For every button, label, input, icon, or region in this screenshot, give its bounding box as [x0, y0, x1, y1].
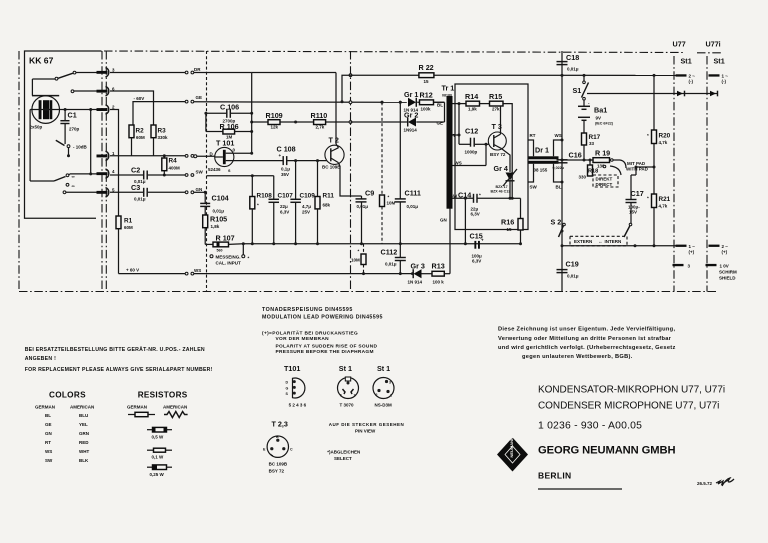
svg-text:DR: DR [194, 67, 201, 72]
svg-text:RT: RT [530, 133, 536, 138]
svg-text:YEL: YEL [79, 422, 88, 427]
capacitor C16 [553, 151, 582, 171]
svg-text:R105: R105 [210, 215, 227, 224]
svg-text:- 10dB: - 10dB [73, 145, 88, 150]
svg-text:BL: BL [437, 103, 443, 108]
svg-text:10M: 10M [351, 258, 360, 263]
legend resistor 0,5W [147, 427, 172, 439]
svg-text:Gr 1: Gr 1 [404, 90, 418, 99]
svg-text:Gr 2: Gr 2 [404, 111, 418, 120]
svg-text:1 ~: 1 ~ [689, 244, 696, 249]
diode Gr3 [408, 262, 425, 285]
logo Neumann diamond [497, 437, 528, 472]
svg-text:1,9k: 1,9k [468, 107, 477, 112]
resistor R22 [419, 63, 434, 84]
capacitor C108 [233, 145, 327, 178]
svg-text:BZX 46 C13: BZX 46 C13 [491, 190, 511, 194]
svg-text:R16: R16 [501, 218, 514, 227]
capacitor C107 [269, 176, 294, 246]
svg-text:400M: 400M [169, 166, 181, 171]
svg-text:- 60V: - 60V [134, 96, 145, 101]
note ABGLEICHEN SELECT [327, 450, 360, 461]
svg-text:C9: C9 [365, 189, 374, 198]
svg-text:60M: 60M [124, 225, 133, 230]
svg-text:0,25 W: 0,25 W [150, 472, 165, 477]
resistor R107 [205, 234, 243, 253]
svg-text:C111: C111 [405, 189, 421, 198]
svg-text:WS: WS [45, 449, 52, 454]
svg-text:Verwertung oder Mitteilung an: Verwertung oder Mitteilung an dritte Per… [498, 336, 672, 342]
capacitor C109 [290, 161, 315, 246]
svg-text:↔: ↔ [598, 239, 603, 244]
svg-text:*: * [358, 249, 360, 254]
svg-text:R110: R110 [311, 111, 328, 120]
svg-text:R 107: R 107 [216, 234, 235, 243]
resistor R17 [582, 133, 601, 160]
svg-text:+: + [279, 153, 282, 158]
svg-text:100k: 100k [421, 107, 432, 112]
svg-text:27k: 27k [492, 107, 500, 112]
svg-text:PRESSURE BEFORE THE DIAPHRAG: PRESSURE BEFORE THE DIAPHRAGM [276, 349, 374, 355]
svg-text:C3: C3 [131, 183, 140, 192]
resistor R109 [252, 111, 314, 130]
svg-text:PIN VIEW: PIN VIEW [355, 428, 376, 433]
svg-text:22μ: 22μ [280, 204, 288, 209]
output module dash-dot boundary [350, 51, 352, 292]
svg-text:R2: R2 [136, 128, 145, 135]
svg-text:1 0236 - 930 - A00.05: 1 0236 - 930 - A00.05 [538, 421, 642, 432]
svg-text:270p: 270p [69, 127, 80, 132]
svg-text:DIREKT: DIREKT [596, 177, 613, 182]
svg-text:BLK: BLK [79, 458, 89, 463]
label MIT PAD WITH PAD [603, 159, 648, 175]
resistor R14 [465, 92, 480, 112]
amplifier module left boundary [105, 51, 107, 292]
svg-text:WS: WS [194, 268, 201, 273]
svg-text:52436: 52436 [208, 167, 221, 172]
resistor R110 [294, 111, 350, 130]
svg-text:St 1: St 1 [339, 364, 352, 373]
svg-text:R 22: R 22 [419, 63, 434, 72]
svg-text:R108: R108 [257, 193, 273, 200]
svg-text:5 2 4 3 6: 5 2 4 3 6 [289, 403, 307, 408]
svg-text:R3: R3 [158, 128, 167, 135]
svg-text:SW: SW [45, 458, 53, 463]
svg-text:GEORG NEUMANN GMBH: GEORG NEUMANN GMBH [538, 445, 675, 457]
zener diode Gr4 [491, 164, 518, 200]
svg-text:G: G [286, 386, 289, 390]
svg-text:08 155: 08 155 [534, 168, 548, 173]
note BEI ERSATZTEILBESTELLUNG [25, 346, 213, 373]
wire +60V rail WS [119, 273, 186, 275]
svg-text:CONDENSER MICROPHONE U77, U7: CONDENSER MICROPHONE U77, U77i [538, 401, 719, 412]
switch S2 [551, 218, 632, 238]
svg-text:COLORS: COLORS [49, 391, 86, 400]
transistor T101 [208, 139, 253, 174]
note Diese Zeichnung [498, 327, 676, 361]
wire output plus rail [562, 245, 676, 247]
capacitor C9 [356, 189, 375, 246]
capacitor C2 [110, 166, 185, 185]
svg-text:St1: St1 [714, 57, 725, 66]
label EXTERN INTERN dashed box [570, 236, 627, 246]
capacitor C14 [450, 191, 521, 217]
wire DR column down [251, 73, 253, 154]
svg-text:*)ABGLEICHEN: *)ABGLEICHEN [327, 450, 360, 455]
note TONADERSPEISUNG [262, 307, 383, 321]
svg-text:1 ~: 1 ~ [722, 74, 729, 79]
capacitor C106 [204, 103, 253, 132]
svg-text:GN: GN [440, 218, 447, 223]
svg-text:BLU: BLU [79, 413, 88, 418]
capacitor C19 [557, 260, 579, 279]
wire DR to T2 collector column [194, 72, 252, 74]
svg-text:3: 3 [389, 381, 391, 385]
capacitor C1 [60, 110, 79, 145]
svg-text:15: 15 [507, 227, 513, 232]
svg-text:BSY 72: BSY 72 [490, 152, 506, 157]
amplifier output stage box [455, 84, 528, 230]
svg-text:*: * [257, 203, 259, 208]
svg-text:C 106: C 106 [220, 103, 239, 112]
pin 2(-) U77 [676, 74, 696, 85]
svg-text:*: * [647, 196, 649, 201]
resistor R105 [203, 215, 227, 245]
svg-text:B: B [276, 435, 279, 439]
resistor R3 [151, 125, 168, 156]
svg-text:2,7k: 2,7k [316, 125, 325, 130]
node DR contacts [185, 71, 188, 74]
svg-text:T 2,3: T 2,3 [272, 420, 288, 429]
svg-text:2 ~: 2 ~ [722, 244, 729, 249]
outer microphone housing frame [19, 51, 721, 292]
note POLARITAET [262, 330, 377, 356]
svg-text:R13: R13 [432, 262, 445, 271]
svg-text:2: 2 [354, 394, 356, 398]
svg-text:R17: R17 [589, 134, 601, 141]
svg-text:S 2: S 2 [551, 218, 562, 227]
svg-text:6,3V: 6,3V [472, 259, 481, 264]
svg-text:1: 1 [340, 394, 342, 398]
svg-text:und wird gerichtlich verfolgt.: und wird gerichtlich verfolgt. (Urheberr… [498, 345, 676, 351]
svg-text:*: * [479, 193, 481, 198]
svg-text:560: 560 [217, 249, 223, 253]
svg-text:WS: WS [555, 133, 562, 138]
svg-text:GE: GE [45, 422, 52, 427]
svg-text:RED: RED [79, 440, 89, 445]
svg-text:+: + [481, 238, 484, 243]
svg-text:1N 914: 1N 914 [408, 280, 423, 285]
inner shield dashed boundary [206, 51, 208, 292]
svg-text:SCHIRM: SCHIRM [719, 270, 737, 275]
svg-text:Ba1: Ba1 [594, 106, 607, 115]
svg-text:R20: R20 [659, 133, 671, 140]
svg-text:GN: GN [45, 431, 52, 436]
svg-text:C16: C16 [569, 151, 582, 160]
capacitor C15 [464, 197, 484, 264]
capacitor C17 [626, 175, 644, 223]
svg-text:25V: 25V [302, 210, 310, 215]
svg-text:MESSEING.: MESSEING. [216, 255, 241, 260]
svg-text:1000p: 1000p [465, 150, 478, 155]
svg-text:R109: R109 [266, 111, 283, 120]
wire T101 source row [207, 175, 274, 177]
svg-text:St1: St1 [681, 57, 692, 66]
svg-text:ANGEBEN !: ANGEBEN ! [25, 356, 56, 362]
svg-text:Gr 4: Gr 4 [494, 164, 508, 173]
svg-text:6,3V: 6,3V [471, 212, 480, 217]
node contacts on output module boundary [349, 74, 352, 77]
svg-text:RESISTORS: RESISTORS [138, 391, 188, 400]
svg-text:INTERN: INTERN [605, 239, 622, 244]
svg-text:C19: C19 [566, 260, 579, 269]
svg-text:MODULATION LEAD POWERING DIN: MODULATION LEAD POWERING DIN45595 [262, 314, 383, 320]
svg-text:VOR DER MEMBRAN: VOR DER MEMBRAN [276, 336, 330, 342]
svg-text:C2: C2 [131, 166, 140, 175]
svg-text:GN: GN [196, 187, 203, 192]
svg-text:15: 15 [424, 79, 430, 84]
resistor R20 [631, 74, 671, 194]
svg-text:SW: SW [530, 185, 538, 190]
svg-text:C109: C109 [300, 193, 316, 200]
svg-text:C107: C107 [278, 193, 294, 200]
svg-text:R 19: R 19 [595, 149, 610, 158]
wire R22 supply row [342, 75, 419, 101]
svg-text:2x50p: 2x50p [30, 125, 43, 130]
-10dB pad switch [56, 140, 88, 157]
svg-text:SHIELD: SHIELD [719, 276, 736, 281]
resistor R108 [250, 176, 272, 246]
svg-text:BERLIN: BERLIN [538, 471, 571, 481]
note AUF DIE STECKER GESEHEN [329, 422, 405, 433]
svg-text:Gr 3: Gr 3 [411, 262, 425, 271]
svg-text:AUF DIE STECKER GESEHEN: AUF DIE STECKER GESEHEN [329, 422, 405, 427]
svg-text:SELECT: SELECT [334, 456, 352, 461]
pin 2(+) U77i [709, 244, 729, 255]
pin 1(+) U77 [676, 244, 696, 255]
svg-text:2 ~: 2 ~ [689, 74, 696, 79]
svg-text:+ 60 V: + 60 V [126, 268, 139, 273]
resistor 10M select (lower) [351, 244, 366, 275]
wire pin6 to R3 [110, 91, 154, 125]
diode Gr2 [351, 111, 445, 133]
battery module main rail [561, 51, 563, 292]
transistor T2 [322, 73, 362, 197]
svg-text:C18: C18 [566, 53, 579, 62]
svg-text:GERMAN: GERMAN [127, 405, 147, 410]
resistor R13 [422, 209, 451, 285]
legend RESISTORS table [127, 391, 188, 418]
svg-text:33: 33 [589, 141, 595, 146]
svg-text:0,01μ: 0,01μ [567, 67, 579, 72]
svg-text:330k: 330k [158, 135, 169, 140]
switch S1 [573, 74, 589, 100]
svg-text:Tr 1: Tr 1 [442, 84, 455, 93]
svg-text:(+): (+) [689, 250, 695, 255]
svg-text:GRN: GRN [79, 431, 89, 436]
svg-text:(-): (-) [722, 79, 727, 84]
connector view T2 T3 [263, 420, 293, 474]
svg-text:6,3V: 6,3V [280, 210, 289, 215]
svg-text:0,01μ: 0,01μ [213, 209, 225, 214]
svg-text:BL: BL [45, 413, 51, 418]
svg-text:EXTERN: EXTERN [574, 239, 592, 244]
svg-text:0,01μ: 0,01μ [567, 274, 579, 279]
resistor R12 [420, 91, 445, 112]
pin 1(-) U77i [709, 74, 729, 85]
svg-text:35V: 35V [281, 172, 289, 177]
svg-text:100 k: 100 k [433, 280, 445, 285]
capacitor C3 [110, 183, 185, 202]
node GE contacts [185, 100, 188, 103]
wire -60V row [133, 102, 185, 125]
KK 67 capsule box [25, 51, 102, 218]
arrow contacts on S1 line [677, 91, 718, 97]
node SW contacts [185, 174, 188, 177]
svg-text:BL: BL [556, 185, 562, 190]
legend COLORS table [35, 391, 94, 464]
pin 1 0V shield U77i [706, 264, 738, 281]
svg-text:GE: GE [196, 95, 203, 100]
svg-text:1,8k: 1,8k [211, 224, 220, 229]
wire GE rail [194, 101, 407, 104]
svg-text:AMERICAN: AMERICAN [163, 405, 187, 410]
pin 3 U77 [673, 264, 691, 269]
svg-text:CAL. INPUT: CAL. INPUT [216, 261, 242, 266]
svg-text:BZX 17: BZX 17 [496, 185, 508, 189]
resistor R106 [206, 122, 253, 140]
date signature [697, 478, 734, 486]
svg-text:2: 2 [376, 393, 378, 397]
svg-text:R21: R21 [659, 196, 671, 203]
svg-text:BC 109B: BC 109B [269, 462, 288, 467]
svg-text:330: 330 [579, 175, 587, 180]
svg-text:gegen unlauteren Wettbewerb, B: gegen unlauteren Wettbewerb, BGB). [522, 354, 633, 360]
connector view T101 [284, 364, 307, 408]
svg-text:R1: R1 [124, 218, 133, 225]
wire 0V rail [243, 243, 520, 245]
wire S1 remote line [587, 93, 718, 95]
battery Ba1 [578, 100, 614, 133]
legend resistor 0,25W [147, 465, 172, 477]
svg-text:SW: SW [196, 170, 204, 175]
svg-text:D: D [286, 381, 289, 385]
svg-text:0,5 W: 0,5 W [152, 435, 165, 440]
connector view St1 T3070 [338, 364, 359, 408]
svg-text:∞: ∞ [72, 174, 75, 179]
diode Gr1 [381, 90, 419, 113]
svg-text:1: 1 [390, 394, 392, 398]
svg-text:1N914: 1N914 [404, 128, 418, 133]
svg-text:BSY 72: BSY 72 [269, 469, 285, 474]
svg-text:DIRECT: DIRECT [596, 182, 613, 187]
svg-text:4,7μ: 4,7μ [302, 204, 311, 209]
svg-text:R14: R14 [465, 92, 478, 101]
transformer Tr1 [437, 84, 455, 223]
resistor R21 [647, 194, 671, 247]
svg-text:WS: WS [455, 161, 462, 166]
resistor R16 [501, 198, 523, 245]
choke Dr1 [528, 133, 564, 190]
svg-text:(+): (+) [722, 250, 728, 255]
svg-text:POLARITY AT SUDDEN RISE OF: POLARITY AT SUDDEN RISE OF SOUND [276, 343, 378, 349]
svg-text:(-): (-) [689, 79, 694, 84]
label DIREKT DIRECT dashed box [593, 175, 618, 187]
svg-text:∞: ∞ [72, 183, 75, 188]
svg-text:GERMAN: GERMAN [35, 405, 55, 410]
capsule C0 dual diaphragm [30, 96, 60, 130]
capacitor C104 [200, 191, 228, 215]
svg-text:0,01μ: 0,01μ [134, 197, 146, 202]
svg-text:WHT: WHT [79, 449, 89, 454]
svg-text:C104: C104 [212, 194, 229, 203]
resistor R18 [579, 159, 599, 180]
wire pin3 DR row [110, 72, 185, 74]
svg-text:NS-D3M: NS-D3M [375, 403, 393, 408]
wire pin1 row to T101 gate [110, 155, 185, 157]
svg-text:0,1 W: 0,1 W [152, 455, 165, 460]
connector St1 U77 column [674, 56, 692, 292]
svg-text:C112: C112 [381, 248, 398, 257]
svg-text:T 3070: T 3070 [340, 403, 355, 408]
svg-text:Dr 1: Dr 1 [535, 146, 549, 155]
connector St1 U77i column [707, 56, 725, 292]
svg-text:*: * [248, 256, 250, 261]
svg-text:R15: R15 [489, 92, 502, 101]
svg-text:Diese Zeichnung ist unser Eige: Diese Zeichnung ist unser Eigentum. Jede… [498, 327, 675, 333]
capacitor C18 [557, 53, 580, 77]
svg-text:4,7k: 4,7k [659, 204, 668, 209]
svg-text:(IEC 6F22): (IEC 6F22) [595, 122, 614, 126]
wire R14 R15 supply row [453, 103, 467, 105]
svg-text:C12: C12 [465, 127, 478, 136]
svg-text:*: * [647, 133, 649, 138]
resistor 10M select (upper) [380, 101, 396, 244]
wire pad network node [562, 159, 593, 161]
svg-text:26.5.72: 26.5.72 [697, 481, 713, 486]
svg-text:TONADERSPEISUNG DIN45595: TONADERSPEISUNG DIN45595 [262, 307, 353, 313]
svg-text:C: C [290, 448, 293, 452]
svg-text:KONDENSATOR-MIKROPHON U77, U7: KONDENSATOR-MIKROPHON U77, U77i [538, 385, 725, 396]
svg-text:S1: S1 [573, 86, 582, 95]
svg-text:0,1μ: 0,1μ [281, 167, 290, 172]
svg-text:9V: 9V [596, 116, 602, 121]
svg-text:68k: 68k [323, 203, 331, 208]
svg-text:T 101: T 101 [216, 139, 234, 148]
svg-text:St 1: St 1 [377, 364, 390, 373]
svg-text:T101: T101 [284, 364, 300, 373]
svg-text:0,01μ: 0,01μ [407, 204, 419, 209]
svg-text:R18: R18 [588, 169, 598, 175]
svg-text:15V: 15V [629, 210, 637, 215]
resistor R1 [110, 110, 133, 274]
svg-text:*: * [388, 195, 390, 200]
svg-text:FOR REPLACEMENT PLEASE ALWA: FOR REPLACEMENT PLEASE ALWAYS GIVE SERIA… [25, 367, 213, 373]
svg-text:(+)=POLARITÄT BEI DRUCKANSTI: (+)=POLARITÄT BEI DRUCKANSTIEG [262, 330, 358, 337]
svg-text:R11: R11 [323, 193, 335, 200]
svg-text:C17: C17 [631, 189, 644, 198]
connector KK67 pin bars [97, 68, 116, 198]
svg-text:R12: R12 [420, 91, 433, 100]
svg-text:U77: U77 [673, 40, 686, 49]
svg-text:T 2: T 2 [329, 136, 339, 145]
svg-text:KK 67: KK 67 [29, 56, 54, 66]
svg-text:U77i: U77i [706, 40, 721, 49]
svg-text:GE: GE [437, 121, 444, 126]
svg-text:NEUMANN: NEUMANN [509, 437, 514, 458]
svg-text:1 0V: 1 0V [720, 264, 729, 269]
svg-text:C1: C1 [68, 111, 77, 120]
